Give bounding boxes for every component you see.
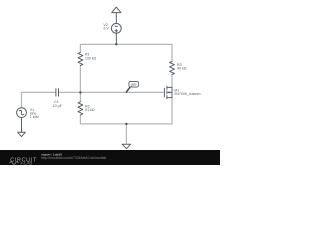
svg-text:1 kHz: 1 kHz [30, 115, 39, 119]
svg-text:9 V: 9 V [103, 27, 109, 31]
svg-text:≠·LAB: ≠·LAB [21, 161, 33, 165]
svg-text:2N7000_custom: 2N7000_custom [174, 92, 200, 96]
svg-text:100 kΩ: 100 kΩ [85, 56, 97, 60]
svg-text:gate: gate [131, 83, 137, 87]
svg-text:10 µF: 10 µF [53, 104, 63, 108]
svg-text:51 kΩ: 51 kΩ [85, 108, 95, 112]
svg-text:http://circuitlab.com/c/7324/l: http://circuitlab.com/c/7324/lab10-b/cir… [41, 156, 106, 160]
svg-text:40 kΩ: 40 kΩ [177, 66, 187, 70]
